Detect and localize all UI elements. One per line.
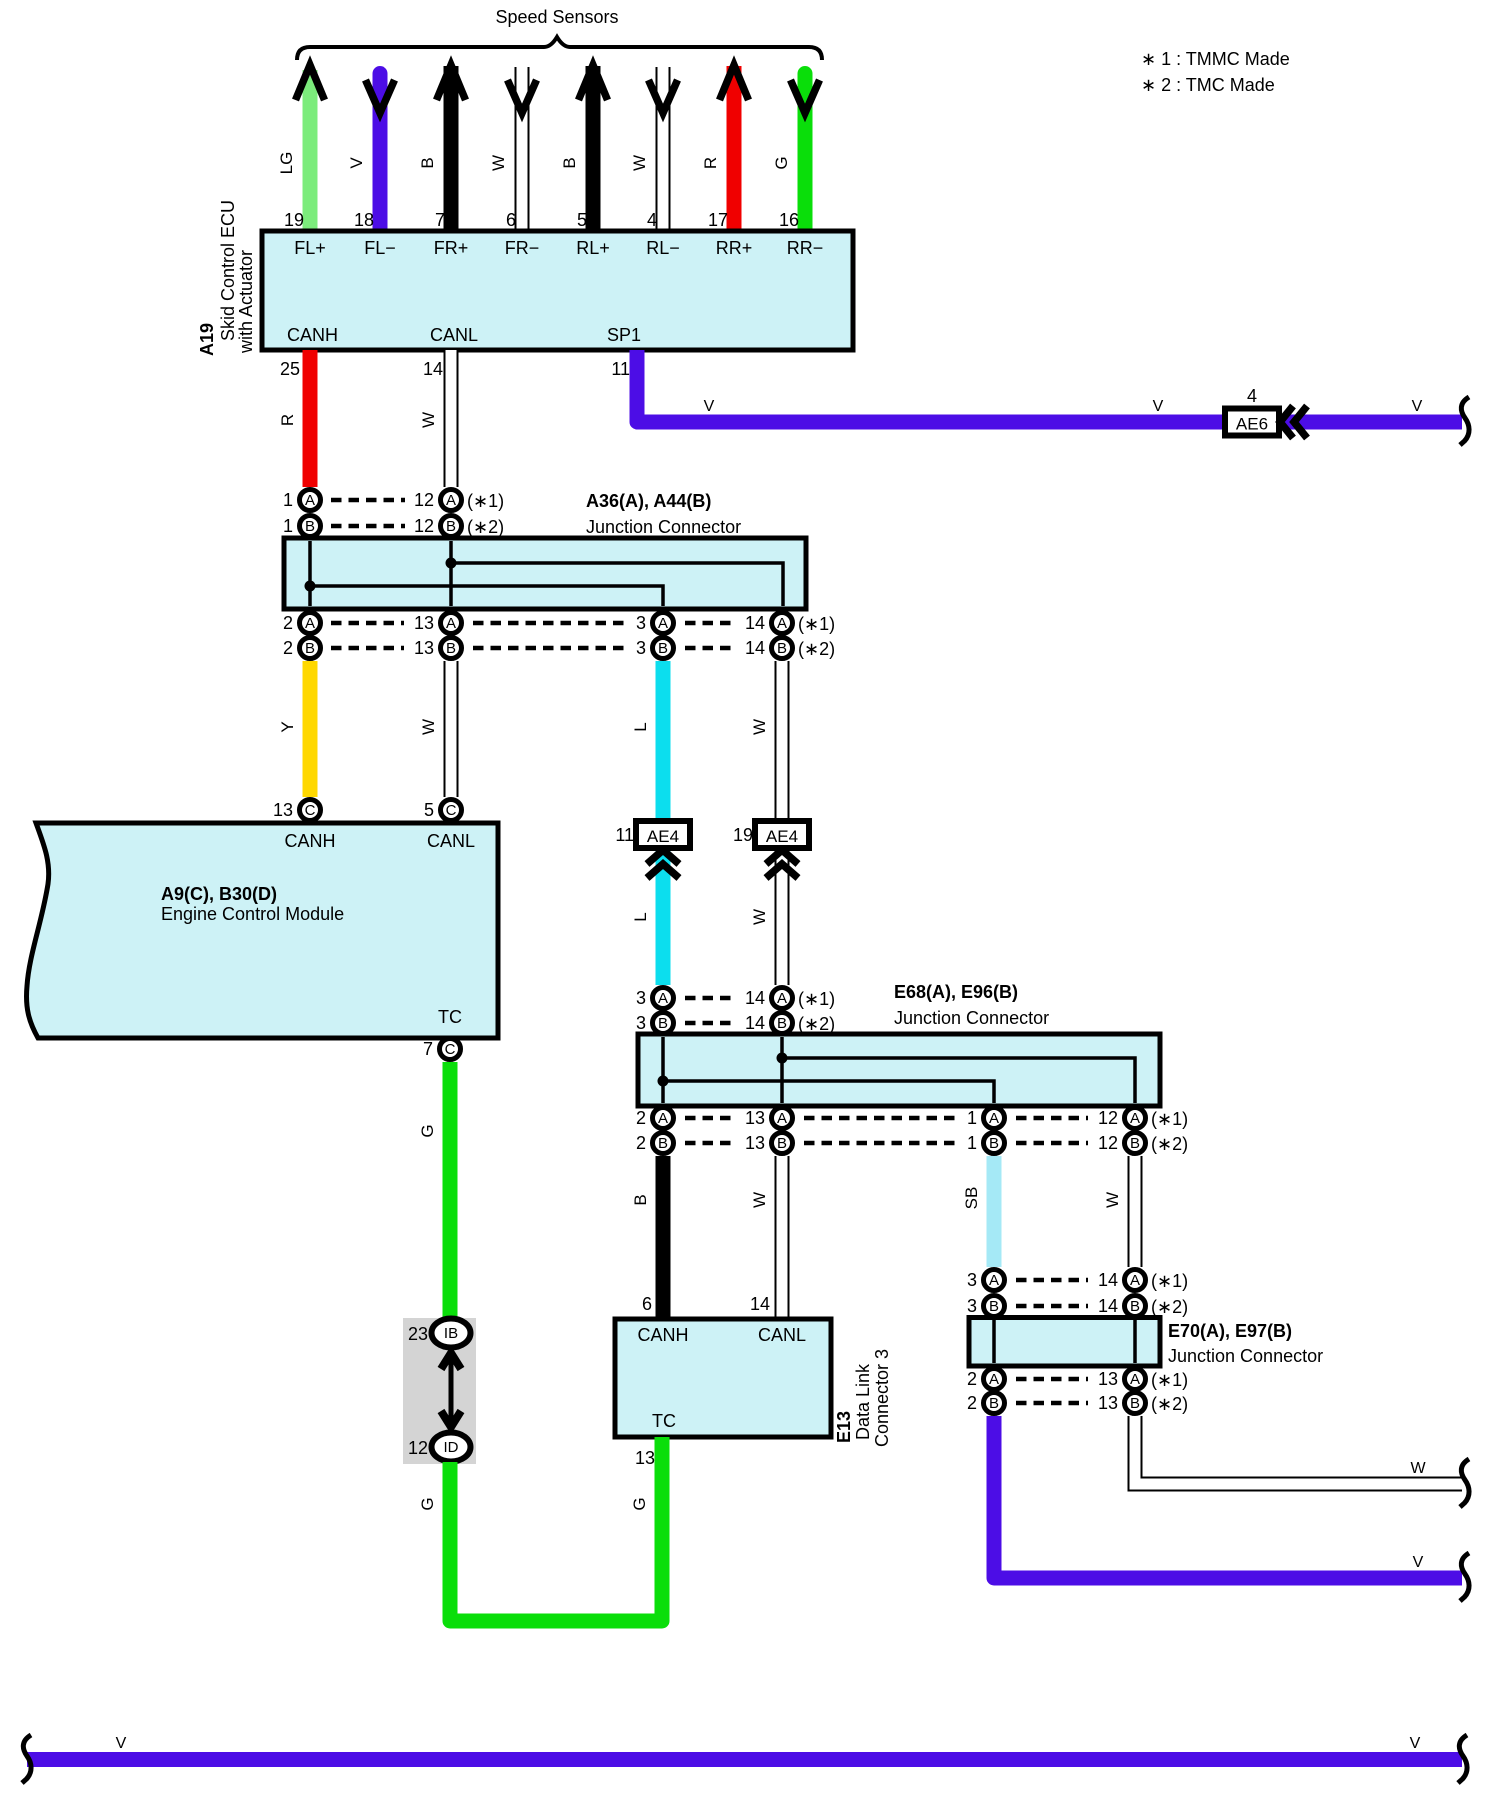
svg-text:E70(A), E97(B): E70(A), E97(B) <box>1168 1321 1292 1341</box>
svg-text:RR+: RR+ <box>716 238 753 258</box>
svg-text:2: 2 <box>967 1393 977 1413</box>
wire W white A36 to AE4 <box>775 661 790 821</box>
junction connector A36 box <box>284 538 806 609</box>
E70 dashes 2A-13A <box>1016 1377 1088 1382</box>
chevrons AE4 right <box>766 850 798 864</box>
svg-text:B: B <box>658 1015 668 1032</box>
svg-text:B: B <box>777 1135 787 1152</box>
svg-text:12: 12 <box>1098 1108 1118 1128</box>
svg-text:B: B <box>418 157 437 168</box>
svg-text:4: 4 <box>1247 386 1257 406</box>
svg-text:11: 11 <box>611 359 630 379</box>
brace over speed sensor wires <box>297 37 822 60</box>
arrow up on wire 5 <box>579 65 608 100</box>
svg-text:W: W <box>1410 1460 1426 1477</box>
svg-text:SB: SB <box>962 1187 981 1210</box>
cut squiggle W right <box>1460 1459 1469 1507</box>
arrow down on wire 18 <box>366 80 395 113</box>
wire V violet E70 to right edge <box>994 1416 1462 1578</box>
A36 internal wiring <box>308 541 312 606</box>
svg-text:A: A <box>446 492 456 509</box>
svg-text:B: B <box>777 1015 787 1032</box>
svg-text:5: 5 <box>577 210 587 230</box>
wire FL+ speed sensor (LG) <box>303 70 318 231</box>
E68 dashes 2B-13B <box>685 1141 735 1146</box>
svg-text:A: A <box>658 1110 668 1127</box>
svg-text:2: 2 <box>967 1369 977 1389</box>
svg-text:W: W <box>489 155 508 171</box>
svg-text:A: A <box>777 615 787 632</box>
svg-text:Speed Sensors: Speed Sensors <box>495 7 618 27</box>
wire FL- speed sensor (V) <box>373 74 388 232</box>
svg-text:Y: Y <box>278 721 297 732</box>
chevrons AE4 left <box>647 850 679 864</box>
svg-text:11: 11 <box>615 825 634 845</box>
svg-text:(∗1): (∗1) <box>1151 1109 1188 1129</box>
svg-text:∗ 1 : TMMC Made: ∗ 1 : TMMC Made <box>1141 49 1290 69</box>
A36 dashes 1B-12B <box>331 524 405 529</box>
wire RL- speed sensor (W) <box>656 67 671 231</box>
svg-text:14: 14 <box>1098 1270 1118 1290</box>
connector AE6 <box>1225 409 1279 436</box>
svg-text:AE4: AE4 <box>766 827 798 846</box>
wire V violet bus bottom <box>27 1752 1462 1767</box>
E68 dashes 2A-13A <box>685 1116 735 1121</box>
svg-text:CANL: CANL <box>430 325 478 345</box>
svg-text:V: V <box>116 1735 127 1752</box>
svg-text:(∗1): (∗1) <box>798 989 835 1009</box>
svg-text:3: 3 <box>636 638 646 658</box>
svg-text:V: V <box>704 398 715 415</box>
svg-text:13: 13 <box>1098 1369 1118 1389</box>
svg-text:13: 13 <box>635 1448 655 1468</box>
svg-text:2: 2 <box>283 613 293 633</box>
wire Y yellow A36 to ECM CANH <box>303 661 318 797</box>
svg-text:A: A <box>777 1110 787 1127</box>
wire CANH R red from A19 to junction <box>303 350 318 487</box>
svg-text:FL−: FL− <box>364 238 396 258</box>
wire L cyan AE4 to E68 <box>656 848 671 985</box>
svg-text:1: 1 <box>967 1108 977 1128</box>
svg-text:4: 4 <box>647 210 657 230</box>
svg-text:C: C <box>445 1041 456 1058</box>
svg-text:W: W <box>419 719 438 735</box>
svg-text:13: 13 <box>745 1108 765 1128</box>
svg-text:1: 1 <box>283 516 293 536</box>
svg-text:Junction Connector: Junction Connector <box>1168 1346 1323 1366</box>
svg-text:13: 13 <box>1098 1393 1118 1413</box>
E68 dashes 1A-12A <box>1016 1116 1088 1121</box>
svg-text:14: 14 <box>745 1013 765 1033</box>
E68 dashes 3B-14B <box>685 1021 735 1026</box>
svg-text:FR+: FR+ <box>434 238 469 258</box>
twisted pair arrow <box>449 1354 454 1426</box>
svg-text:G: G <box>418 1497 437 1510</box>
svg-text:A: A <box>777 990 787 1007</box>
wire G green ECM TC down <box>443 1062 458 1318</box>
wire L cyan A36 to AE4 <box>656 661 671 821</box>
svg-text:14: 14 <box>1098 1296 1118 1316</box>
svg-text:Engine Control Module: Engine Control Module <box>161 904 344 924</box>
svg-text:W: W <box>419 412 438 428</box>
A36 dashes 2A-13A <box>331 621 404 626</box>
svg-text:18: 18 <box>354 210 374 230</box>
E70 internal wires <box>992 1320 996 1363</box>
cut squiggle SP1 right <box>1460 397 1469 445</box>
svg-text:W: W <box>630 155 649 171</box>
svg-text:23: 23 <box>408 1324 428 1344</box>
svg-text:7: 7 <box>423 1039 433 1059</box>
svg-text:IB: IB <box>444 1325 458 1342</box>
svg-text:3: 3 <box>636 1013 646 1033</box>
svg-text:Junction Connector: Junction Connector <box>586 517 741 537</box>
svg-text:B: B <box>305 640 315 657</box>
cut squiggle bottom left <box>22 1735 31 1783</box>
svg-text:B: B <box>777 640 787 657</box>
svg-text:(∗2): (∗2) <box>798 1014 835 1034</box>
svg-text:RL−: RL− <box>646 238 680 258</box>
svg-text:B: B <box>560 157 579 168</box>
svg-text:19: 19 <box>733 825 753 845</box>
wire CANL W white from A19 to junction <box>444 350 459 487</box>
A36 dashes 13B-3B <box>473 646 626 651</box>
svg-text:E13: E13 <box>834 1411 854 1443</box>
svg-text:19: 19 <box>284 210 304 230</box>
junction connector E68 box <box>638 1034 1160 1106</box>
svg-text:13: 13 <box>414 638 434 658</box>
svg-text:12: 12 <box>408 1438 428 1458</box>
svg-text:3: 3 <box>636 613 646 633</box>
svg-text:A36(A), A44(B): A36(A), A44(B) <box>586 491 711 511</box>
junction connector E70 box <box>969 1318 1160 1367</box>
svg-text:B: B <box>305 518 315 535</box>
E68 dashes 13B-1B <box>804 1141 956 1146</box>
svg-text:2: 2 <box>283 638 293 658</box>
svg-text:17: 17 <box>708 210 728 230</box>
cut squiggle bottom right <box>1458 1735 1467 1783</box>
svg-text:B: B <box>1130 1395 1140 1412</box>
arrow down on wire 16 <box>791 80 820 113</box>
wire SP1 V violet to AE6 and right edge <box>637 350 1462 422</box>
svg-text:A9(C), B30(D): A9(C), B30(D) <box>161 884 277 904</box>
svg-text:C: C <box>446 802 457 819</box>
arrow up on wire 17 <box>720 65 749 100</box>
svg-text:V: V <box>1153 398 1164 415</box>
E70 dashes 2B-13B <box>1016 1401 1088 1406</box>
DLC3 E13 Data Link Connector 3 box <box>615 1319 831 1437</box>
connector AE4 right <box>755 821 809 848</box>
svg-text:(∗1): (∗1) <box>1151 1370 1188 1390</box>
svg-text:A: A <box>989 1110 999 1127</box>
wire RR- speed sensor (G) <box>798 74 813 232</box>
svg-text:3: 3 <box>636 988 646 1008</box>
wire W white E68 to DLC3 CANL <box>775 1156 790 1319</box>
svg-text:13: 13 <box>414 613 434 633</box>
svg-text:14: 14 <box>745 638 765 658</box>
shield gray box <box>403 1318 476 1464</box>
E68 dashes 3A-14A <box>685 996 735 1001</box>
svg-text:ID: ID <box>444 1439 459 1456</box>
svg-text:A: A <box>1130 1371 1140 1388</box>
svg-text:B: B <box>658 1135 668 1152</box>
svg-text:Junction Connector: Junction Connector <box>894 1008 1049 1028</box>
wire W white AE4 to E68 <box>775 848 790 985</box>
svg-text:RR−: RR− <box>787 238 824 258</box>
svg-text:R: R <box>701 157 720 169</box>
svg-text:A: A <box>989 1272 999 1289</box>
connector AE4 left <box>636 821 690 848</box>
cut squiggle V right <box>1460 1553 1469 1601</box>
svg-text:5: 5 <box>424 800 434 820</box>
svg-text:12: 12 <box>414 516 434 536</box>
svg-text:CANL: CANL <box>758 1325 806 1345</box>
ECU A19 Skid Control ECU with Actuator box <box>262 231 853 350</box>
svg-text:AE4: AE4 <box>647 827 679 846</box>
svg-text:3: 3 <box>967 1296 977 1316</box>
chevrons AE6 <box>1280 406 1293 438</box>
arrow down on wire 4 <box>649 80 678 113</box>
svg-text:(∗2): (∗2) <box>1151 1297 1188 1317</box>
wire W white E68 to E70 <box>1128 1156 1143 1267</box>
svg-text:G: G <box>418 1124 437 1137</box>
svg-text:(∗1): (∗1) <box>1151 1271 1188 1291</box>
E68 dashes 13A-1A <box>804 1116 956 1121</box>
svg-text:with Actuator: with Actuator <box>236 250 256 354</box>
svg-text:SP1: SP1 <box>607 325 641 345</box>
wire FR- speed sensor (W) <box>515 67 530 231</box>
svg-text:A: A <box>658 990 668 1007</box>
A36 dashes 2B-13B <box>331 646 404 651</box>
svg-text:V: V <box>1412 398 1423 415</box>
svg-text:G: G <box>772 156 791 169</box>
svg-text:L: L <box>631 722 650 731</box>
arrow up on wire 19 <box>296 65 325 100</box>
svg-text:FL+: FL+ <box>294 238 326 258</box>
svg-text:B: B <box>989 1298 999 1315</box>
wire RR+ speed sensor (R) <box>727 66 742 231</box>
svg-text:3: 3 <box>967 1270 977 1290</box>
svg-text:25: 25 <box>280 359 300 379</box>
svg-text:A: A <box>305 615 315 632</box>
svg-text:1: 1 <box>283 490 293 510</box>
svg-text:FR−: FR− <box>505 238 540 258</box>
svg-text:2: 2 <box>636 1108 646 1128</box>
E68 internal wiring <box>661 1037 665 1103</box>
svg-text:CANH: CANH <box>284 831 335 851</box>
svg-text:Connector 3: Connector 3 <box>872 1349 892 1447</box>
svg-text:(∗2): (∗2) <box>798 639 835 659</box>
svg-text:V: V <box>1410 1735 1421 1752</box>
wire FR+ speed sensor (B) <box>444 66 459 231</box>
svg-text:E68(A), E96(B): E68(A), E96(B) <box>894 982 1018 1002</box>
svg-text:W: W <box>750 719 769 735</box>
wire G green U shape to DLC3 TC <box>450 1437 662 1621</box>
wire W white A36 to ECM CANL <box>444 661 459 797</box>
terminal ID <box>432 1433 471 1462</box>
svg-text:A: A <box>1130 1110 1140 1127</box>
svg-text:16: 16 <box>779 210 799 230</box>
svg-text:TC: TC <box>438 1007 462 1027</box>
svg-text:14: 14 <box>745 988 765 1008</box>
wire W white E70 to right edge <box>1135 1416 1462 1484</box>
svg-text:W: W <box>750 909 769 925</box>
svg-text:LG: LG <box>277 152 296 175</box>
svg-text:B: B <box>446 640 456 657</box>
svg-text:13: 13 <box>745 1133 765 1153</box>
svg-text:CANH: CANH <box>637 1325 688 1345</box>
svg-text:6: 6 <box>642 1294 652 1314</box>
svg-text:Data Link: Data Link <box>853 1363 873 1440</box>
svg-text:∗ 2 : TMC Made: ∗ 2 : TMC Made <box>1141 75 1275 95</box>
svg-text:L: L <box>631 912 650 921</box>
svg-text:(∗1): (∗1) <box>798 614 835 634</box>
ECM A9(C) B30(D) Engine Control Module box <box>26 823 498 1038</box>
E68 dashes 1B-12B <box>1016 1141 1088 1146</box>
svg-text:AE6: AE6 <box>1236 415 1268 434</box>
svg-text:A: A <box>989 1371 999 1388</box>
svg-text:1: 1 <box>967 1133 977 1153</box>
svg-text:6: 6 <box>506 210 516 230</box>
svg-text:TC: TC <box>652 1411 676 1431</box>
svg-text:CANL: CANL <box>427 831 475 851</box>
A36 dashes 3B-14B <box>685 646 735 651</box>
svg-text:14: 14 <box>745 613 765 633</box>
svg-text:(∗1): (∗1) <box>467 491 504 511</box>
svg-text:G: G <box>630 1497 649 1510</box>
svg-text:B: B <box>1130 1298 1140 1315</box>
E70 dashes 3B-14B <box>1016 1304 1088 1309</box>
svg-text:2: 2 <box>636 1133 646 1153</box>
wire B black E68 to DLC3 CANH <box>656 1156 671 1319</box>
svg-text:V: V <box>1413 1554 1424 1571</box>
svg-text:CANH: CANH <box>287 325 338 345</box>
svg-text:B: B <box>446 518 456 535</box>
svg-text:14: 14 <box>750 1294 770 1314</box>
svg-text:A: A <box>446 615 456 632</box>
svg-text:W: W <box>1103 1192 1122 1208</box>
svg-text:(∗2): (∗2) <box>467 517 504 537</box>
svg-text:V: V <box>347 157 366 169</box>
svg-text:RL+: RL+ <box>576 238 610 258</box>
E70 dashes 3A-14A <box>1016 1278 1088 1283</box>
svg-text:B: B <box>1130 1135 1140 1152</box>
svg-text:C: C <box>305 802 316 819</box>
svg-text:A: A <box>305 492 315 509</box>
A36 dashes 3A-14A <box>685 621 735 626</box>
svg-text:B: B <box>989 1135 999 1152</box>
svg-text:12: 12 <box>1098 1133 1118 1153</box>
svg-text:B: B <box>631 1194 650 1205</box>
arrow up on wire 7 <box>437 65 466 100</box>
wire SB skyblue E68 to E70 <box>987 1156 1002 1267</box>
arrow down on wire 6 <box>508 80 537 113</box>
svg-text:A: A <box>1130 1272 1140 1289</box>
svg-text:W: W <box>750 1192 769 1208</box>
wire RL+ speed sensor (B) <box>586 66 601 231</box>
svg-text:Skid Control ECU: Skid Control ECU <box>218 200 238 341</box>
A36 dashes 13A-3A <box>473 621 626 626</box>
svg-text:R: R <box>278 414 297 426</box>
svg-text:A19: A19 <box>197 323 217 356</box>
svg-text:13: 13 <box>273 800 293 820</box>
svg-text:A: A <box>658 615 668 632</box>
A36 dashes 1A-12A <box>331 498 405 503</box>
svg-text:(∗2): (∗2) <box>1151 1394 1188 1414</box>
svg-text:B: B <box>658 640 668 657</box>
svg-text:(∗2): (∗2) <box>1151 1134 1188 1154</box>
svg-text:B: B <box>989 1395 999 1412</box>
terminal IB <box>432 1319 471 1348</box>
svg-text:12: 12 <box>414 490 434 510</box>
svg-text:7: 7 <box>435 210 445 230</box>
svg-text:14: 14 <box>423 359 443 379</box>
